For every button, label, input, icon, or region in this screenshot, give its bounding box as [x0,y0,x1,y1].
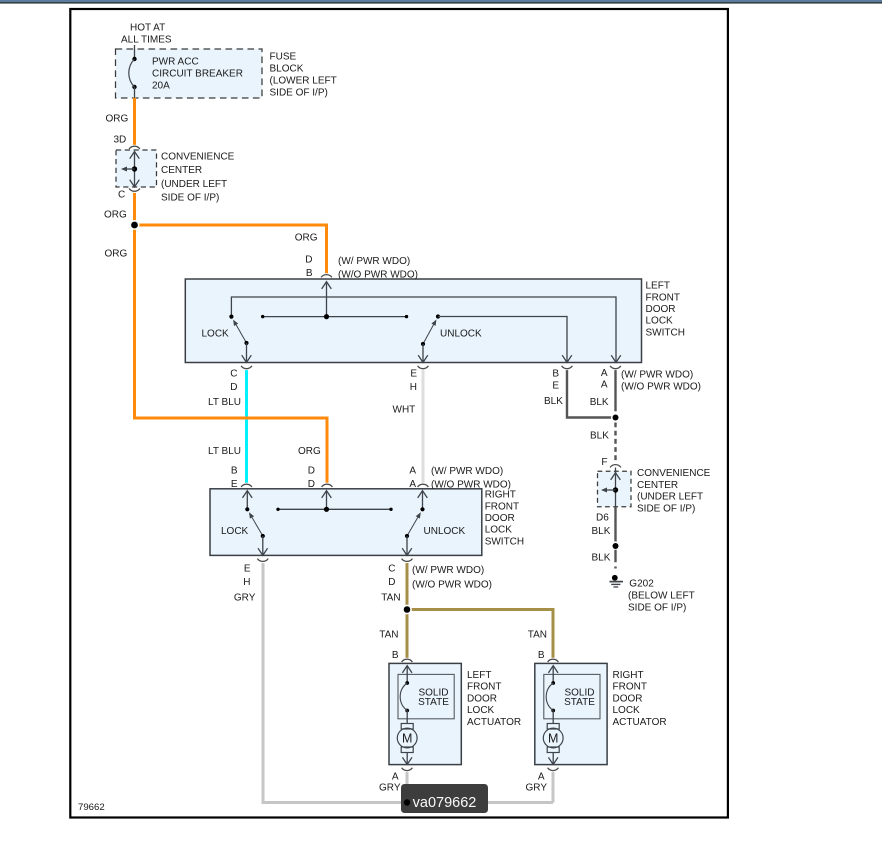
label RIGHT FRONT DOOR LOCK SWITCH [485,490,524,548]
wire ORG breaker to convenience center [133,98,136,145]
svg-text:CENTER: CENTER [637,480,678,491]
label ORG top branch [295,233,318,244]
connector C/D right switch [402,559,413,562]
label LT BLU upper [208,397,241,408]
right front door lock switch box [210,489,482,556]
connector D arc right switch [322,484,333,487]
left front door lock actuator box [389,663,461,764]
wire GRY right actuator A down [552,772,555,802]
label pin B right actuator [538,650,545,661]
label TAN left actuator [379,630,398,641]
label LOCK right switch [221,526,249,537]
circuit breaker PWR ACC 20A [129,57,137,98]
svg-text:GRY: GRY [379,783,401,794]
right actuator internal solid state + motor M [543,666,595,765]
svg-text:E: E [231,479,238,490]
svg-text:TAN: TAN [381,593,400,604]
left actuator internal solid state + motor M [397,666,449,765]
junction node ORG [130,220,140,230]
svg-text:CONVENIENCE: CONVENIENCE [161,152,235,163]
connector F arc [610,465,621,468]
tooltip va079662 [401,784,488,813]
svg-text:DOOR: DOOR [467,693,497,704]
label UNLOCK left switch [440,329,482,340]
svg-text:LOCK: LOCK [485,525,513,536]
connector B arc left switch [321,275,332,278]
svg-text:B: B [538,650,545,661]
wire BLK convenience center to junction [614,507,616,546]
svg-text:UNLOCK: UNLOCK [424,526,466,537]
wire TAN right switch C/D to junction [406,563,409,610]
svg-text:RIGHT: RIGHT [485,490,516,501]
svg-text:ORG: ORG [295,233,318,244]
svg-text:va079662: va079662 [413,795,477,811]
label RIGHT FRONT DOOR LOCK ACTUATOR [613,670,667,728]
svg-text:3D: 3D [114,135,127,146]
connector A arc left actuator [402,768,413,771]
convenience center internal [121,152,139,187]
wire GRY left actuator A down [406,772,409,802]
wire BLK switch A/A down [614,370,616,411]
solid state inner box (right actuator) [544,674,600,718]
svg-text:CIRCUIT BREAKER: CIRCUIT BREAKER [152,69,243,80]
wire BLK switch B/E down [567,370,612,417]
right switch bus [276,507,392,512]
label TAN upper [381,593,400,604]
svg-text:LEFT: LEFT [646,281,670,292]
svg-text:BLK: BLK [590,431,609,442]
label W/PWR WDO below right switch [412,565,492,590]
svg-text:A: A [601,368,608,379]
label pin D6 [596,512,609,523]
svg-text:(W/ PWR WDO): (W/ PWR WDO) [621,369,693,380]
svg-text:B: B [392,650,399,661]
label pins C D [230,369,237,394]
label ORG upper [106,114,129,125]
svg-text:D: D [308,466,315,477]
svg-text:ORG: ORG [104,210,127,221]
wire ORG junction to right switch pin D [135,225,328,483]
svg-text:LT BLU: LT BLU [208,446,241,457]
svg-text:TAN: TAN [379,630,398,641]
label FUSE BLOCK location [270,52,337,99]
svg-text:(BELOW LEFT: (BELOW LEFT [628,591,695,602]
label LT BLU lower [208,446,241,457]
label BLK right [590,397,609,408]
right front door lock actuator box [535,663,607,764]
wire ORG junction to left switch pin B [135,225,327,273]
connector B/E left switch [562,366,573,369]
svg-text:UNLOCK: UNLOCK [440,329,482,340]
junction node TAN [402,605,412,615]
svg-text:ORG: ORG [106,114,129,125]
svg-text:ALL TIMES: ALL TIMES [121,35,172,46]
svg-text:D: D [308,479,315,490]
connector 3D arc [129,146,140,149]
svg-text:M: M [548,732,558,746]
connector A/A left switch [610,366,621,369]
label LEFT FRONT DOOR LOCK SWITCH [646,281,685,339]
svg-text:E: E [410,369,417,380]
svg-text:(W/ PWR WDO): (W/ PWR WDO) [412,565,484,576]
label LOCK left switch [202,329,230,340]
svg-text:SWITCH: SWITCH [646,327,685,338]
ground G202 [610,575,624,587]
svg-text:STATE: STATE [564,697,595,708]
left switch feed arrow [322,282,332,317]
svg-text:SIDE OF I/P): SIDE OF I/P) [637,503,695,514]
svg-text:DOOR: DOOR [613,693,643,704]
svg-text:(W/O PWR WDO): (W/O PWR WDO) [621,381,701,392]
svg-text:WHT: WHT [393,405,416,416]
label BLK left [544,396,563,407]
svg-text:20A: 20A [152,81,170,92]
connector C/D left switch [241,366,252,369]
svg-text:(UNDER LEFT: (UNDER LEFT [637,492,703,503]
left switch LOCK blade [233,320,251,363]
wire WHT switch E/H to right switch A/A [422,370,425,483]
svg-text:ACTUATOR: ACTUATOR [467,717,521,728]
left switch UNLOCK blade [418,320,436,363]
svg-text:GRY: GRY [234,593,256,604]
connector B arc right switch [241,484,252,487]
svg-text:C: C [388,564,395,575]
svg-text:A: A [409,466,416,477]
label BLK lower2 [592,553,611,564]
svg-text:BLK: BLK [590,397,609,408]
label pin B left actuator [392,650,399,661]
svg-text:(W/O PWR WDO): (W/O PWR WDO) [338,270,418,281]
connector B arc right actuator [548,659,559,662]
right switch LOCK contact [243,491,253,512]
svg-text:BLK: BLK [592,526,611,537]
label W/PWR WDO left switch top [338,256,418,281]
svg-text:FRONT: FRONT [613,682,647,693]
svg-text:D: D [305,255,312,266]
left front door lock switch box [185,279,641,363]
label UNLOCK right switch [424,526,466,537]
svg-text:(UNDER LEFT: (UNDER LEFT [161,179,227,190]
svg-text:B: B [306,268,313,279]
svg-text:GRY: GRY [526,783,548,794]
right switch feed arrow [322,491,332,510]
label GRY right actuator [526,783,548,794]
label TAN right actuator [528,630,547,641]
svg-text:FUSE: FUSE [270,52,297,63]
label HOT AT ALL TIMES [121,23,172,46]
svg-text:D: D [388,577,395,588]
svg-text:D6: D6 [596,512,609,523]
svg-text:FRONT: FRONT [485,501,519,512]
svg-text:ACTUATOR: ACTUATOR [613,717,667,728]
svg-text:G202: G202 [629,579,654,590]
wire BLK dashed to ground [614,550,616,570]
junction node BLK [611,413,620,422]
label CONVENIENCE CENTER lower [637,468,711,514]
svg-text:BLK: BLK [592,553,611,564]
svg-text:LEFT: LEFT [467,670,491,681]
svg-text:FRONT: FRONT [467,682,501,693]
label pin A left actuator [392,772,399,783]
right switch UNLOCK contact [418,491,428,512]
label ORG left branch [105,249,128,260]
svg-text:A: A [538,772,545,783]
svg-text:A: A [601,380,608,391]
connector A arc right switch [418,484,429,487]
svg-text:LOCK: LOCK [613,705,641,716]
svg-text:C: C [230,369,237,380]
convenience center dashed box (upper) [116,150,157,187]
svg-text:D: D [230,382,237,393]
fuse block dashed box [116,49,263,98]
svg-text:E: E [244,564,251,575]
svg-text:SIDE OF I/P): SIDE OF I/P) [270,88,328,99]
svg-text:79662: 79662 [78,802,105,813]
svg-text:(W/ PWR WDO): (W/ PWR WDO) [431,466,503,477]
svg-text:H: H [243,577,250,588]
svg-text:F: F [601,457,607,468]
label WHT [393,405,416,416]
svg-text:FRONT: FRONT [646,292,680,303]
svg-text:E: E [552,380,559,391]
label CONVENIENCE CENTER upper [161,152,235,204]
svg-text:H: H [410,382,417,393]
svg-text:CENTER: CENTER [161,165,202,176]
svg-text:ORG: ORG [298,446,321,457]
label W/PWR WDO right of A [621,369,701,392]
svg-text:(W/O PWR WDO): (W/O PWR WDO) [412,579,492,590]
connector C arc [129,189,140,192]
svg-text:TAN: TAN [528,630,547,641]
junction node BLK lower [611,541,620,550]
svg-text:(LOWER LEFT: (LOWER LEFT [270,76,337,87]
left switch bus B [261,314,408,319]
svg-text:BLK: BLK [544,396,563,407]
svg-text:CONVENIENCE: CONVENIENCE [637,468,711,479]
label GRY left actuator [379,783,401,794]
wire LT BLU switch C/D to right switch B/E [245,370,248,483]
label 79662 [78,802,105,813]
label pin 3D [114,135,127,146]
svg-text:DOOR: DOOR [485,513,515,524]
wire ORG convenience center to junction [133,193,136,225]
svg-text:A: A [392,772,399,783]
svg-text:LOCK: LOCK [202,329,230,340]
label W/PWR WDO right switch top [431,466,511,491]
left switch UNLOCK contact [436,314,572,362]
svg-text:C: C [118,190,125,201]
connector E/H right switch [257,559,268,562]
svg-text:STATE: STATE [418,697,449,708]
svg-text:HOT AT: HOT AT [130,23,165,34]
label PWR ACC CIRCUIT BREAKER 20A [152,57,243,92]
label ORG lower [298,446,321,457]
svg-text:M: M [402,732,412,746]
connector A arc right actuator [548,768,559,771]
connector B arc left actuator [402,659,413,662]
svg-text:LOCK: LOCK [646,316,674,327]
junction node GRY [404,799,410,805]
label pins A A [601,368,608,391]
convenience center dashed box (lower) [598,471,632,507]
svg-text:DOOR: DOOR [646,304,676,315]
label BLK mid [590,431,609,442]
label pin F [601,457,607,468]
svg-text:A: A [409,479,416,490]
label pin A right actuator [538,772,545,783]
svg-text:PWR ACC: PWR ACC [152,57,199,68]
connector E/H left switch [418,366,429,369]
svg-text:B: B [552,369,559,380]
wire BLK dashed to connector F [614,423,616,463]
label pins A A right switch [409,466,416,491]
svg-text:SIDE OF I/P): SIDE OF I/P) [161,193,219,204]
wire GRY right switch E/H to actuators [263,563,553,803]
svg-text:SWITCH: SWITCH [485,536,524,547]
label LEFT FRONT DOOR LOCK ACTUATOR [467,670,521,728]
label pins C D right switch [388,564,395,589]
svg-text:RIGHT: RIGHT [613,670,644,681]
solid state inner box (left actuator) [398,674,454,718]
svg-text:BLOCK: BLOCK [270,64,304,75]
label ORG mid-left [104,210,127,221]
right switch LOCK blade [249,512,268,555]
svg-text:LOCK: LOCK [467,705,495,716]
svg-text:(W/ PWR WDO): (W/ PWR WDO) [338,256,410,267]
label pins B E right switch [231,466,238,491]
label G202 location [628,579,695,614]
label GRY upper [234,593,256,604]
convenience center lower internal [601,468,620,508]
right switch UNLOCK blade [402,512,421,555]
label pin C [118,190,125,201]
svg-text:SIDE OF I/P): SIDE OF I/P) [628,603,686,614]
label pins E H [410,369,418,394]
label pins E H right switch [243,564,251,589]
label pins B E [552,369,559,392]
svg-text:LT BLU: LT BLU [208,397,241,408]
label pins D D right switch [308,466,315,491]
svg-text:LOCK: LOCK [221,526,249,537]
wire feed to fuse block [134,45,136,59]
left switch bus A [229,297,621,362]
label pins D B left switch [305,255,313,280]
svg-text:ORG: ORG [105,249,128,260]
svg-text:B: B [231,466,238,477]
wire TAN junction to right actuator [407,610,553,658]
wire TAN junction to left actuator [406,610,409,658]
label BLK lower1 [592,526,611,537]
